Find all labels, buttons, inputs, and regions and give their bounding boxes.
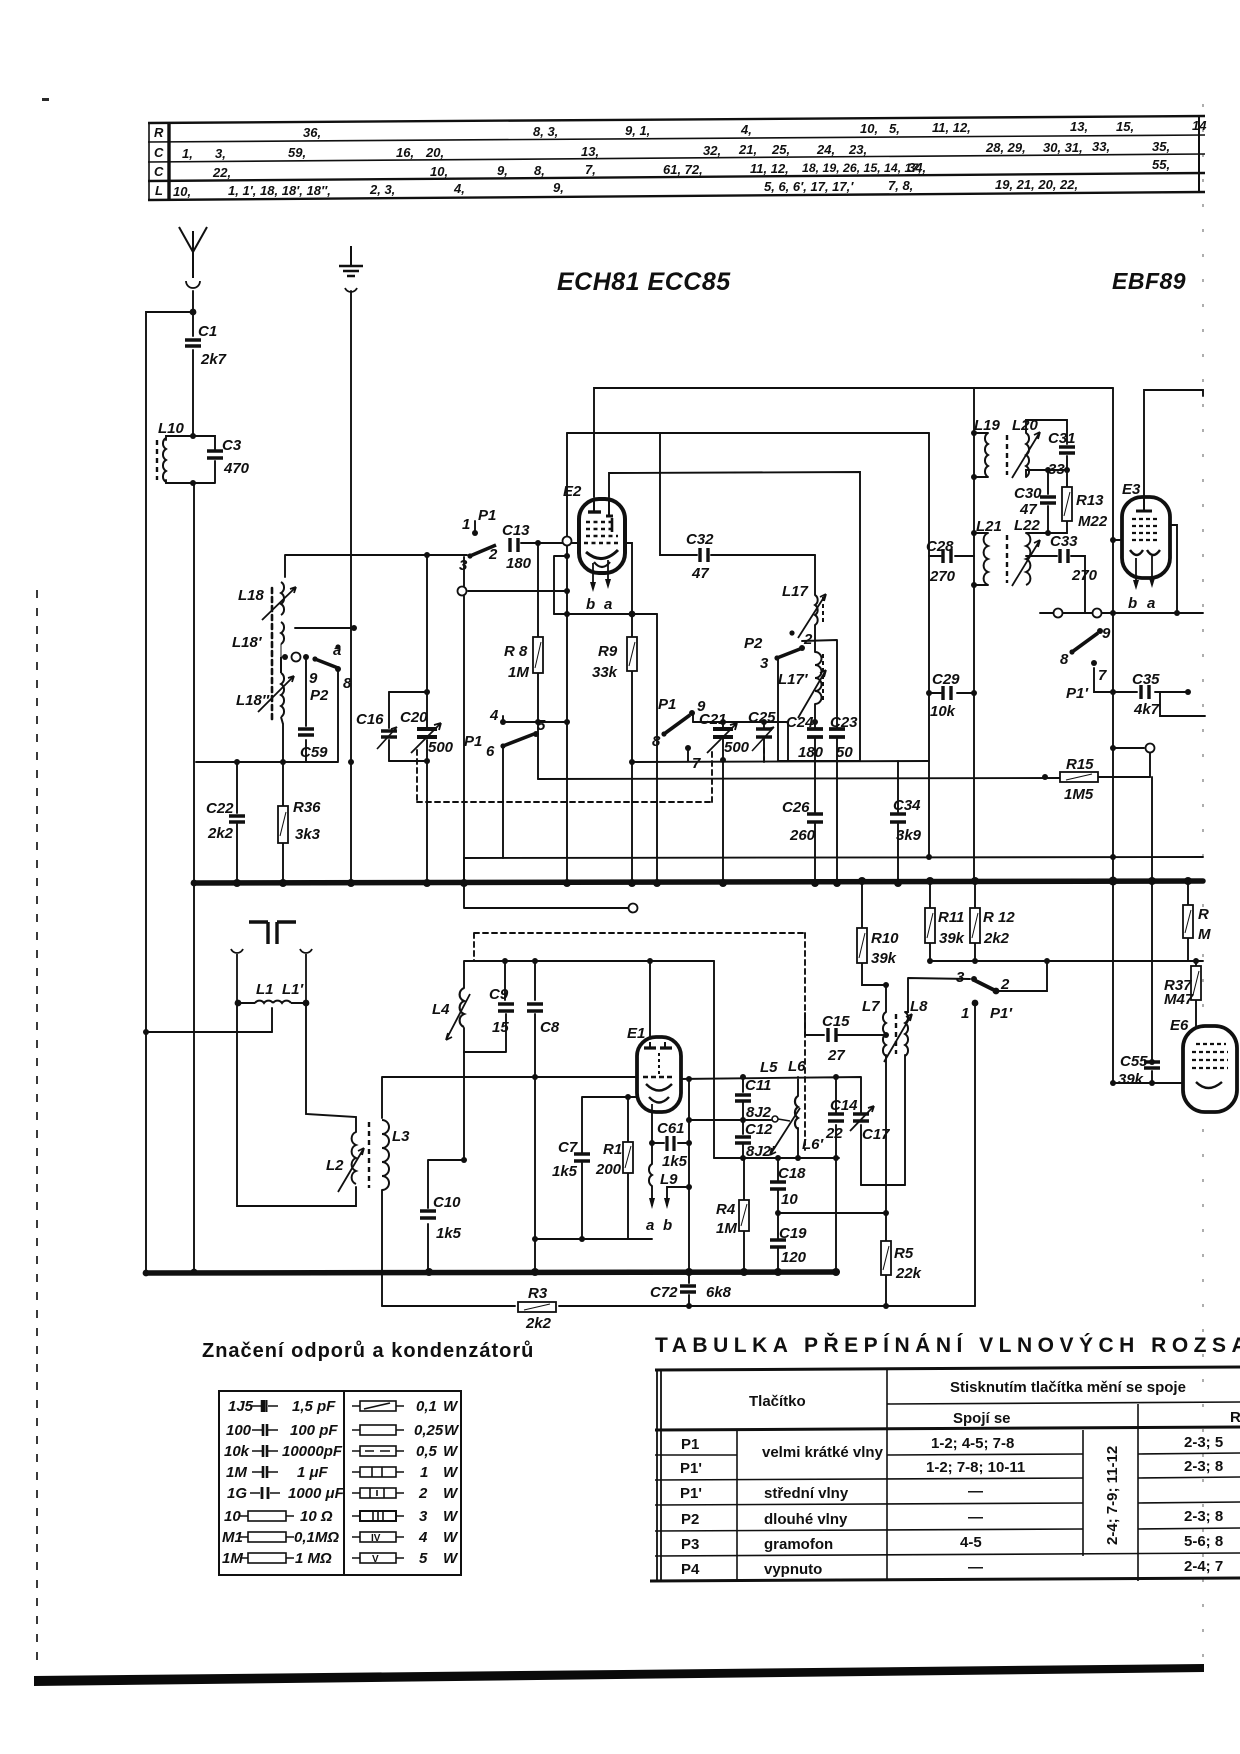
wire: grid line to E1 [382,1077,638,1118]
svg-text:R1: R1 [603,1141,622,1158]
svg-text:15: 15 [492,1019,509,1036]
wire: rail B to oscillator section [567,432,929,434]
svg-text:61, 72,: 61, 72, [663,162,703,177]
svg-text:Tlačítko: Tlačítko [749,1393,806,1410]
capacitor C35 [1132,671,1160,718]
legend resistor wattage symbols [352,1401,404,1565]
wire: switch 8 contact down to frame bottom [337,670,339,761]
legend box [219,1391,461,1575]
svg-text:0,1: 0,1 [416,1398,437,1415]
legend 5W [352,1553,404,1565]
wire: C11 to C12 [742,1102,744,1158]
legend 3W [352,1511,404,1521]
wire: E2 right vertical to bus [631,762,633,883]
table label divider (double) [167,122,170,200]
bottom separator black bar [34,1664,1204,1686]
svg-text:R5: R5 [894,1245,914,1262]
svg-text:9,: 9, [497,163,508,178]
wire: R36 branch [282,762,284,883]
svg-text:L7: L7 [862,998,880,1015]
svg-text:P2: P2 [744,635,763,652]
svg-text:M: M [1198,926,1211,943]
wire: E2 screen-grid box [554,556,567,614]
legend 2W [352,1488,404,1498]
svg-text:C19: C19 [779,1225,807,1242]
svg-text:4-5: 4-5 [960,1534,982,1551]
wire: C29 line [929,692,974,694]
wire: R4 leads [743,1158,745,1272]
wire: E2 triode anode to R9 [623,543,632,762]
wire: AVC circle riser [566,433,568,883]
capacitor C59 [298,729,328,761]
svg-text:260: 260 [789,827,816,844]
coil L22 [1007,517,1041,586]
wire: E3 left side stub [1113,539,1125,541]
legend capacitor examples [240,1400,294,1563]
capacitor C15 [822,1013,850,1064]
terminal hook right [300,949,312,1003]
svg-text:P1': P1' [680,1485,702,1502]
wire: L18 top to switch P1 pivot 3 [285,555,467,577]
coil L4 [432,988,470,1040]
svg-text:C1: C1 [198,323,217,340]
wire: C32 line [660,433,815,555]
svg-text:6k8: 6k8 [706,1284,732,1301]
svg-text:1 MΩ: 1 MΩ [295,1550,332,1567]
wire: L6 return line [714,1157,839,1159]
svg-text:22,: 22, [212,165,231,180]
svg-text:19, 21, 20, 22,: 19, 21, 20, 22, [995,177,1078,192]
wire: C14 column to chassis bus [835,1125,837,1272]
svg-text:C23: C23 [830,714,858,731]
coil L5/L6 [760,1058,825,1155]
svg-text:10,: 10, [860,121,878,136]
svg-text:C11: C11 [745,1077,771,1094]
wire: R14 leads [1187,881,1189,961]
capacitor C23 [829,714,858,761]
pins a b of E1 [646,1198,672,1234]
svg-text:34,: 34, [908,160,926,175]
svg-text:P1: P1 [478,507,496,524]
wire: antenna junction to left branch [146,312,272,1273]
svg-text:b: b [1128,595,1137,612]
wire: C22 branch [236,762,238,883]
svg-text:C: C [154,145,164,160]
svg-text:1-2; 7-8; 10-11: 1-2; 7-8; 10-11 [926,1459,1025,1476]
capacitor C22 [206,800,245,842]
wire: E1 anode line across to C17 [679,1077,861,1114]
svg-text:47: 47 [1019,501,1037,518]
svg-text:5: 5 [419,1550,428,1567]
svg-text:2-4; 7-9; 11-12: 2-4; 7-9; 11-12 [1104,1446,1121,1545]
wire: antenna lead down to junction [192,291,194,336]
svg-text:270: 270 [929,568,956,585]
left page-fold dashed mark [36,590,38,1670]
wire: C35 output corner [1160,692,1205,716]
svg-text:R: R [1230,1409,1240,1426]
svg-text:1M5: 1M5 [1064,786,1094,803]
svg-text:M47: M47 [1164,991,1194,1008]
svg-text:27: 27 [827,1047,845,1064]
capacitor C25 (trimmer) [748,709,776,751]
svg-text:P1: P1 [464,733,482,750]
svg-text:2k7: 2k7 [200,351,227,368]
wire: C17/L8 bottom link [861,1184,905,1186]
svg-text:a: a [604,596,612,613]
wire: C11/C12 tap to L6 [689,1119,771,1121]
resistor R3 [518,1285,556,1332]
svg-text:22: 22 [825,1125,843,1142]
svg-text:L8: L8 [910,998,928,1015]
wire: L6' bottom drop [797,1128,799,1158]
wire: L3 bottom through bus to R3 line [381,1190,383,1306]
svg-text:1k5: 1k5 [436,1225,462,1242]
svg-text:39k: 39k [871,950,897,967]
svg-text:R 8: R 8 [504,643,528,660]
svg-text:10: 10 [224,1508,241,1525]
svg-text:P4: P4 [681,1561,700,1578]
svg-text:C17: C17 [862,1126,890,1143]
svg-text:10,: 10, [173,184,191,199]
legend row 100pF [252,1424,278,1436]
svg-text:P3: P3 [681,1536,699,1553]
svg-text:100 pF: 100 pF [290,1422,338,1439]
capacitor C31 [1048,430,1076,478]
svg-text:8: 8 [652,733,661,750]
switch P1' (lower) [956,969,1013,1022]
svg-text:2-3; 8: 2-3; 8 [1184,1458,1223,1475]
svg-text:R15: R15 [1066,756,1094,773]
wire: L21 left terminals [974,533,988,585]
tube E3 [1122,481,1170,612]
svg-text:9: 9 [1102,625,1111,642]
svg-text:C59: C59 [300,744,328,761]
legend row 1000uF [250,1487,280,1499]
wire: L19 terminals [974,433,988,477]
wire: C55 branch from bus [1151,881,1153,1083]
svg-text:W: W [444,1422,460,1439]
svg-text:20,: 20, [425,145,444,160]
wire: R15 line [538,777,1150,779]
svg-text:C32: C32 [686,531,714,548]
svg-text:M1: M1 [222,1529,243,1546]
wire: AVC return line y762 [632,748,929,762]
svg-text:0,5: 0,5 [416,1443,438,1460]
parts index table rules [148,116,1205,123]
svg-text:C13: C13 [502,522,530,539]
wire: C23 column to bus [836,737,838,883]
svg-text:C34: C34 [893,797,921,814]
coil L1' [273,981,306,1003]
capacitor C8 [527,1004,560,1036]
capacitor C32 [686,531,714,582]
svg-text:24,: 24, [816,142,835,157]
svg-text:1, 1′, 18, 18′, 18″,: 1, 1′, 18, 18′, 18″, [228,183,331,198]
svg-text:L: L [155,183,163,198]
capacitor C26 [782,799,823,844]
wire: C21 bottom to bus [722,737,724,883]
wire: dashed gang link lower [474,933,805,1150]
svg-text:W: W [443,1508,459,1525]
svg-text:C: C [154,164,164,179]
wire: x657 drop to bus [656,614,658,883]
wire: E3 right side to detector line [1168,525,1177,613]
svg-text:13,: 13, [1070,119,1088,134]
svg-text:23,: 23, [848,142,867,157]
coil L17' [778,652,826,718]
svg-text:8,: 8, [534,163,545,178]
svg-text:50: 50 [836,744,853,761]
wire: C24/C23 box left and bottom [778,658,860,761]
resistor R15 [1060,756,1098,803]
legend 0,5W [352,1446,404,1456]
tuning gang mechanical link [249,922,296,944]
svg-text:L19: L19 [974,417,1001,434]
wire: P1 band switch risers (contacts 4,6) [503,716,567,858]
wire: L2 bottom return to L1 left [237,1003,356,1206]
wire: L4/C9/C8 top line [464,961,714,1000]
svg-text:vypnuto: vypnuto [764,1561,822,1578]
svg-text:C24: C24 [786,714,814,731]
svg-text:39k: 39k [1118,1071,1144,1088]
svg-text:18, 19, 26, 15, 14, 17,: 18, 19, 26, 15, 14, 17, [802,161,922,175]
wire: L17' bottom to C24 [814,704,816,729]
coil L20 [1007,417,1040,478]
table left border [148,123,150,200]
resistor R37 [1164,966,1201,1008]
wire: C17 bottom [860,1125,862,1185]
svg-text:C28: C28 [926,538,954,555]
capacitor C20 (tuning gang) [400,709,454,756]
svg-text:4,: 4, [453,181,465,196]
capacitor C17 (trimmer) [850,1106,890,1143]
svg-text:R3: R3 [528,1285,548,1302]
coil L1 [237,981,274,1003]
svg-text:10 Ω: 10 Ω [300,1508,333,1525]
svg-text:L5: L5 [760,1059,778,1076]
svg-text:0,25: 0,25 [414,1422,444,1439]
svg-text:1-2; 4-5; 7-8: 1-2; 4-5; 7-8 [931,1435,1014,1452]
wire: P1' lower contact1 drop [974,1003,976,1306]
svg-text:L17′: L17′ [778,671,809,688]
wire: pivot3 down to AVC circle [463,557,465,883]
wire: contact9 riser to C21 box [692,712,694,722]
capacitor C11 [735,1077,772,1121]
svg-text:P1′: P1′ [990,1005,1013,1022]
svg-text:E3: E3 [1122,481,1141,498]
wire: dashed L18 core [271,588,274,722]
coil L21 [976,518,1002,585]
svg-text:4k7: 4k7 [1133,701,1160,718]
wire: L1' right end to L2 [306,1003,356,1132]
svg-text:2-3; 8: 2-3; 8 [1184,1508,1223,1525]
capacitor C21 (tuning gang) [699,711,750,756]
svg-text:dlouhé vlny: dlouhé vlny [764,1511,848,1528]
wire: R37 leads [1195,961,1197,1026]
coil L8 [884,998,928,1062]
svg-text:W: W [443,1464,459,1481]
svg-text:P2: P2 [310,687,329,704]
wire: C35 line [1113,691,1188,693]
wire: L4/C9 bottom line [464,1014,506,1052]
wire: R8 riser and AVC feed [537,543,539,779]
wave-range table texts [680,1379,1240,1578]
svg-text:L18: L18 [238,587,265,604]
wire: line y961 below bus [930,960,1203,962]
legend 0,1W [352,1401,404,1411]
svg-text:IV: IV [371,1533,381,1544]
capacitor C72 [650,1284,732,1301]
svg-text:500: 500 [724,739,750,756]
coil L10 [157,420,185,482]
wire: long vertical x1113 [1112,388,1114,881]
tube E6 (cut by page edge) [1170,1017,1237,1112]
svg-text:b: b [663,1217,672,1234]
svg-text:5-6; 8: 5-6; 8 [1184,1533,1223,1550]
svg-text:3: 3 [760,655,769,672]
svg-text:Spojí se: Spojí se [953,1410,1011,1427]
svg-text:270: 270 [1071,567,1098,584]
capacitor C28 [926,538,956,585]
switch P2 (mid) [744,630,813,672]
antenna [179,227,207,288]
svg-text:R 12: R 12 [983,909,1015,926]
svg-text:1: 1 [961,1005,969,1022]
wire: E1 plate riser [649,961,651,1042]
svg-text:7, 8,: 7, 8, [888,178,913,193]
svg-text:3: 3 [419,1508,428,1525]
svg-text:C18: C18 [778,1165,806,1182]
svg-text:10k: 10k [224,1443,250,1460]
svg-text:1,5 pF: 1,5 pF [292,1398,336,1415]
svg-text:E6: E6 [1170,1017,1189,1034]
coil L9 [649,1164,678,1188]
wire: contact7 to C35 line [1094,668,1113,692]
svg-text:Značení odporů a kondenzátorů: Značení odporů a kondenzátorů [202,1340,534,1362]
svg-text:22k: 22k [895,1265,922,1282]
wire: L17 top riser [814,555,816,595]
wire: L18' tap line [295,627,354,629]
resistor R10 [857,928,899,967]
wire: R13 bottom to L22 [1048,521,1067,533]
switch P1 (mid) [464,707,546,760]
svg-text:35,: 35, [1152,139,1170,154]
svg-text:5,: 5, [889,121,900,136]
svg-text:C61: C61 [657,1120,685,1137]
svg-text:47: 47 [691,565,709,582]
row labels [154,118,1207,199]
wire: C28 line [929,555,974,557]
svg-text:1M: 1M [508,664,529,681]
svg-text:C8: C8 [540,1019,560,1036]
svg-text:P2: P2 [681,1511,699,1528]
svg-text:11, 12,: 11, 12, [932,120,971,135]
svg-text:33k: 33k [592,664,618,681]
svg-text:W: W [443,1398,459,1415]
svg-text:L6: L6 [788,1058,806,1075]
capacitor C3 [207,437,250,477]
svg-text:28, 29,: 28, 29, [985,140,1026,155]
legend wattage texts [414,1398,460,1567]
svg-text:2k2: 2k2 [207,825,234,842]
svg-text:1M: 1M [222,1550,243,1567]
coil L7 [862,998,886,1056]
svg-text:120: 120 [781,1249,807,1266]
wire: E2 anode line to oscillator coil network [609,472,860,761]
wire: C55 bottom line to E6 [1113,881,1183,1083]
svg-text:L2: L2 [326,1157,344,1174]
terminal hook left [231,949,243,1003]
wire: C30 branch [1026,470,1048,533]
svg-text:W: W [443,1550,459,1567]
svg-text:a: a [1147,595,1155,612]
wire: take-off circle branch [1113,748,1150,777]
legend row 1uF [252,1466,278,1478]
tube E1 [627,1025,681,1112]
wire: AVC line with open circle to E2 [468,590,567,592]
capacitor C16 (padder) [356,711,397,749]
wire: ground lead down to bus [350,291,352,883]
bus: lower chassis bus [146,1272,837,1273]
wire: L18 frame bottom rail [196,761,338,763]
svg-text:R: R [154,125,164,140]
svg-text:L4: L4 [432,1001,450,1018]
wire: detector line with terminals [1040,612,1203,614]
wire: E1 right column to chassis bus [688,1079,690,1272]
svg-text:500: 500 [428,739,454,756]
svg-text:střední vlny: střední vlny [764,1485,849,1502]
capacitor C55 [1118,1053,1160,1088]
wire: grid line C13 to tube E2 [521,542,578,544]
svg-text:8: 8 [1060,651,1069,668]
wire: R5 bottom to return line [885,1275,887,1306]
svg-text:25,: 25, [771,142,790,157]
wire: dashed gang link upper [417,748,764,802]
svg-text:W: W [443,1443,459,1460]
wire: L4 column down to C10 [428,1052,464,1208]
svg-text:1M: 1M [226,1464,247,1481]
switch P2 (band, L18) [282,642,352,704]
svg-text:4: 4 [489,707,499,724]
svg-text:R4: R4 [716,1201,736,1218]
wire: L8 bottom drop [904,1055,906,1185]
resistor R5 [881,1241,922,1282]
svg-text:L20: L20 [1012,417,1039,434]
svg-text:3: 3 [956,969,965,986]
svg-text:14: 14 [1192,118,1207,133]
svg-text:1: 1 [420,1464,428,1481]
svg-text:7,: 7, [585,162,596,177]
svg-text:470: 470 [223,460,250,477]
table right end [1198,116,1200,193]
legend 1W [352,1467,404,1477]
resistor R11 [925,908,965,947]
svg-text:1000 μF: 1000 μF [288,1485,345,1502]
svg-text:1: 1 [462,516,470,533]
svg-text:7: 7 [1098,667,1107,684]
svg-text:55,: 55, [1152,157,1170,172]
svg-text:C35: C35 [1132,671,1160,688]
wire: C34 branch to bus [897,761,899,883]
svg-text:P1': P1' [680,1460,702,1477]
coil L18 [238,582,296,620]
svg-text:C9: C9 [489,986,509,1003]
wire: AVC branch below bus [464,858,628,908]
capacitor C13 [502,522,532,572]
wire: P1' lower contact2 branch [996,961,1047,991]
svg-text:P1: P1 [658,696,676,713]
svg-text:10000pF: 10000pF [282,1443,343,1460]
